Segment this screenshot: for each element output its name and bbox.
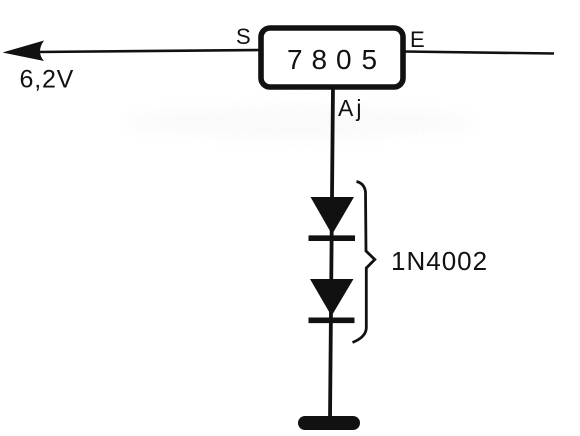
wire: input wire right from 7805 pin E bbox=[404, 52, 554, 54]
svg-text:5: 5 bbox=[362, 44, 378, 75]
svg-text:6,2V: 6,2V bbox=[20, 66, 75, 94]
svg-text:Aj: Aj bbox=[338, 95, 364, 121]
wire: vertical from 7805 common pin down to ground bbox=[330, 86, 333, 419]
svg-text:0: 0 bbox=[336, 44, 352, 75]
svg-text:8: 8 bbox=[312, 44, 328, 75]
svg-text:S: S bbox=[236, 24, 251, 49]
brace grouping D1+D2 bbox=[353, 182, 375, 343]
diode D2 (1N4002) triangle bbox=[310, 279, 354, 316]
svg-text:1N4002: 1N4002 bbox=[391, 246, 488, 276]
diode D2 cathode bar bbox=[309, 317, 355, 323]
ground symbol bbox=[298, 416, 360, 430]
svg-text:E: E bbox=[410, 27, 425, 52]
diode D1 cathode bar bbox=[309, 235, 356, 241]
node 6,2V arrowhead bbox=[3, 41, 45, 62]
wire: output wire left from 7805 pin S bbox=[36, 50, 259, 52]
regulator U1 7805 bbox=[261, 28, 403, 87]
svg-text:7: 7 bbox=[287, 44, 303, 75]
diode D1 (1N4002) triangle bbox=[311, 197, 355, 235]
